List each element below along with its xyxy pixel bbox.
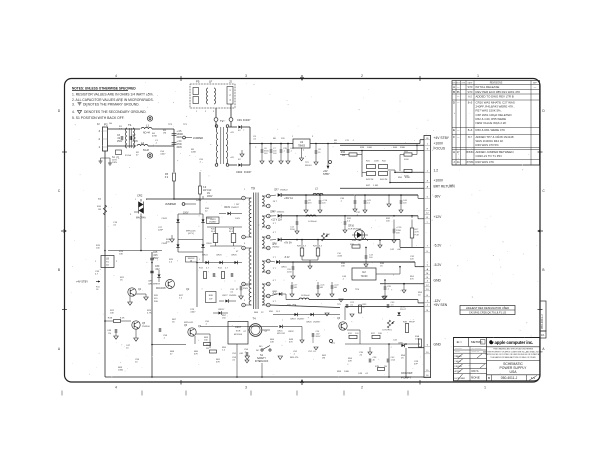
svg-text:P2: P2 — [104, 123, 108, 127]
svg-text:-5.2V: -5.2V — [284, 257, 290, 259]
svg-text:C30: C30 — [155, 266, 160, 268]
svg-text:CR2: CR2 — [137, 194, 143, 198]
svg-text:PROP: PROP — [409, 322, 416, 324]
svg-text:CR19: CR19 — [290, 319, 296, 321]
svg-text:13: 13 — [267, 272, 269, 274]
svg-text:+C15: +C15 — [396, 227, 402, 229]
svg-text:1N4937: 1N4937 — [313, 321, 321, 323]
svg-text:PONPT: PONPT — [401, 376, 413, 380]
svg-text:+100V: +100V — [434, 142, 444, 146]
svg-text:200V: 200V — [177, 137, 183, 139]
svg-text:2M: 2M — [342, 155, 345, 157]
svg-text:CR24: CR24 — [202, 255, 208, 257]
svg-text:100V: 100V — [235, 218, 241, 220]
svg-text:J: J — [427, 305, 428, 307]
svg-text:REVISIONS: REVISIONS — [490, 82, 503, 84]
svg-text:L1: L1 — [146, 124, 150, 128]
svg-text:10K: 10K — [110, 313, 114, 315]
svg-text:B+6: B+6 — [468, 129, 473, 132]
svg-text:HIGHEST REF DESIGNATOR USED: HIGHEST REF DESIGNATOR USED — [466, 306, 509, 310]
svg-text:U2: U2 — [362, 270, 366, 274]
svg-text:USA: USA — [510, 370, 518, 374]
svg-text:-12V .25A: -12V .25A — [286, 304, 297, 307]
svg-text:T2: T2 — [220, 119, 224, 123]
svg-text:-5.2V: -5.2V — [434, 263, 443, 267]
svg-text:1N: 1N — [207, 193, 210, 195]
svg-text:B-7: B-7 — [468, 136, 472, 139]
svg-text:9/79: 9/79 — [468, 91, 473, 94]
svg-text:2. ALL CAPACITOR VALUES ARE IN: 2. ALL CAPACITOR VALUES ARE IN MICROFARA… — [72, 98, 154, 102]
svg-text:A-2: A-2 — [468, 95, 472, 98]
svg-text:1R: 1R — [206, 348, 209, 350]
svg-text:+5V SEN: +5V SEN — [434, 303, 448, 307]
svg-text:B: B — [488, 376, 490, 380]
svg-text:A: A — [453, 85, 455, 89]
svg-text:8/7/84: 8/7/84 — [467, 161, 474, 164]
svg-text:NEW VALUE WAS 2.2K: NEW VALUE WAS 2.2K — [476, 121, 507, 125]
svg-text:R7B: R7B — [375, 366, 380, 368]
svg-text:4: 4 — [115, 74, 117, 78]
svg-text:1N5822: 1N5822 — [272, 246, 280, 248]
svg-text:CR20: CR20 — [306, 321, 312, 323]
svg-text:5. S1 POSITION WITH BACK OFF.: 5. S1 POSITION WITH BACK OFF. — [72, 116, 124, 120]
svg-text:R40: R40 — [341, 152, 346, 154]
svg-text:1M: 1M — [163, 133, 166, 135]
svg-text:.0047: .0047 — [190, 312, 196, 314]
svg-text:GND: GND — [434, 343, 442, 347]
svg-text:+100V: +100V — [434, 179, 444, 183]
svg-text:1N5822: 1N5822 — [277, 212, 285, 214]
svg-text:1.2: 1.2 — [434, 169, 439, 173]
svg-text:4.7K: 4.7K — [415, 232, 420, 234]
svg-text:C25: C25 — [153, 252, 158, 254]
svg-text:⊕ □: ⊕ □ — [457, 340, 462, 344]
svg-text:JUMPER: JUMPER — [193, 137, 203, 140]
svg-text:CR21: CR21 — [277, 331, 283, 333]
svg-text:SAFETY: SAFETY — [257, 357, 266, 360]
svg-text:9: 9 — [268, 227, 269, 229]
svg-text:PILOT: PILOT — [400, 309, 407, 311]
svg-text:330K: 330K — [400, 147, 406, 149]
svg-text:ECO: ECO — [456, 83, 460, 85]
svg-text:1. RESISTOR VALUES ARE IN OHMS: 1. RESISTOR VALUES ARE IN OHMS 1/4 WATT … — [72, 93, 154, 97]
svg-text:INITIAL RELEASE: INITIAL RELEASE — [476, 85, 500, 89]
svg-text:1N4936: 1N4936 — [229, 295, 237, 297]
svg-text:050-4011-J: 050-4011-J — [540, 314, 544, 329]
svg-text:+C22: +C22 — [334, 285, 340, 287]
svg-text:———: ——— — [455, 348, 463, 350]
svg-text:5: 5 — [243, 305, 244, 307]
svg-text:B: B — [542, 268, 544, 272]
svg-text:DESIGN: DESIGN — [455, 366, 463, 368]
svg-text:+30V 1A: +30V 1A — [284, 197, 293, 200]
svg-text:CR7: CR7 — [274, 190, 279, 192]
svg-text:9/79: 9/79 — [468, 86, 473, 89]
svg-text:CR26: CR26 — [231, 255, 237, 257]
svg-text:+ C4: + C4 — [177, 141, 183, 143]
svg-text:C42,R60,CR28,Q6,T9,L8,F1,U2: C42,R60,CR28,Q6,T9,L8,F1,U2 — [469, 311, 507, 315]
svg-text:STBY: STBY — [323, 172, 330, 176]
svg-text:——: —— — [455, 352, 460, 354]
svg-text:1M: 1M — [384, 366, 387, 368]
svg-text:—— —: —— — — [472, 352, 480, 354]
svg-text:CR5: CR5 — [148, 281, 153, 283]
svg-text:J2: J2 — [229, 80, 232, 84]
svg-text:1.5M: 1.5M — [373, 185, 378, 187]
svg-text:7: 7 — [268, 206, 269, 208]
svg-text:[4 PL]: [4 PL] — [188, 233, 194, 235]
svg-text:+4V STBY: +4V STBY — [434, 136, 450, 140]
svg-text:CR1: CR1 — [237, 119, 243, 122]
svg-text:MPU131: MPU131 — [277, 333, 286, 335]
svg-text:F3 1A: F3 1A — [125, 154, 131, 157]
svg-text:10K: 10K — [119, 254, 123, 256]
svg-text:DENOTES THE SECONDARY GROUND.: DENOTES THE SECONDARY GROUND. — [84, 110, 146, 114]
svg-text:200V: 200V — [207, 196, 213, 198]
svg-text:-30V: -30V — [434, 195, 442, 199]
svg-text:JUMPER: JUMPER — [165, 202, 176, 206]
svg-text:12: 12 — [267, 261, 269, 263]
svg-text:3.: 3. — [72, 102, 75, 106]
svg-text:REPRODUCED OR COPIED OR USED I: REPRODUCED OR COPIED OR USED IN WHOLE OR… — [486, 353, 542, 356]
svg-text:4.7K: 4.7K — [147, 313, 152, 315]
svg-text:50uM: 50uM — [143, 150, 149, 152]
svg-text:CR46: CR46 — [206, 243, 212, 245]
svg-text:FOCUS: FOCUS — [434, 147, 446, 151]
svg-text:B/5/84: B/5/84 — [466, 151, 474, 154]
svg-text:2: 2 — [361, 74, 363, 78]
svg-text:C12: C12 — [207, 190, 212, 192]
svg-text:1.1A: 1.1A — [391, 359, 396, 362]
svg-text:CR27: CR27 — [222, 295, 228, 297]
svg-text:R65 470: R65 470 — [290, 357, 299, 359]
svg-text:B: B — [453, 90, 455, 94]
svg-text:4700: 4700 — [177, 144, 183, 146]
svg-text:METRIC: METRIC — [471, 340, 483, 344]
svg-text:10B: 10B — [378, 333, 382, 335]
svg-text:220K: 220K — [191, 152, 197, 154]
svg-text:MCR106: MCR106 — [234, 334, 243, 336]
svg-text:470K: 470K — [152, 136, 158, 138]
svg-text:SCR: SCR — [236, 330, 241, 332]
svg-text:ADDED TO DWG REV LTR B: ADDED TO DWG REV LTR B — [476, 95, 514, 99]
svg-text:LF: LF — [209, 80, 213, 84]
svg-text:1984: 1984 — [449, 183, 455, 187]
svg-text:1N4937: 1N4937 — [297, 319, 305, 321]
svg-text:2A: 2A — [457, 161, 460, 164]
svg-text:R0 S: R0 S — [472, 369, 479, 373]
svg-text:CR6 WHITE: CR6 WHITE — [148, 284, 161, 286]
svg-text:050-4011-J: 050-4011-J — [501, 376, 518, 380]
svg-text:IN4001: IN4001 — [305, 165, 313, 167]
svg-text:E: E — [453, 128, 455, 132]
svg-text:.015: .015 — [153, 255, 158, 257]
svg-text:THIS DRAWING AND SPECIFICATION: THIS DRAWING AND SPECIFICATIONS HEREIN — [493, 347, 534, 350]
svg-text:ON-OFF: ON-OFF — [401, 371, 413, 375]
svg-text:CR20-21 TO T1 PIN: CR20-21 TO T1 PIN — [476, 154, 502, 158]
svg-text:T1: T1 — [128, 123, 132, 127]
svg-text:1: 1 — [484, 386, 486, 390]
svg-text:8.2K: 8.2K — [120, 318, 125, 320]
svg-text:C57 .01: C57 .01 — [308, 351, 316, 353]
svg-text:+5V 3A: +5V 3A — [284, 242, 292, 245]
svg-text:NOTES: UNLESS OTHERWISE SPECIF: NOTES: UNLESS OTHERWISE SPECIFIED — [72, 87, 136, 91]
svg-text:INTERLOCK: INTERLOCK — [255, 361, 269, 363]
svg-text:B+5: B+5 — [468, 101, 473, 104]
svg-text:250V: 250V — [133, 141, 139, 143]
svg-text:H: H — [453, 150, 455, 154]
svg-text:16V: 16V — [396, 233, 400, 235]
svg-text:T9: T9 — [251, 187, 255, 191]
svg-text:100K: 100K — [344, 371, 350, 373]
svg-text:L4 36uH: L4 36uH — [308, 221, 317, 223]
svg-text:10: 10 — [267, 237, 269, 239]
svg-text:74C00: 74C00 — [361, 276, 369, 278]
svg-text:200V: 200V — [316, 336, 321, 338]
svg-text:MPS-U05: MPS-U05 — [186, 231, 196, 233]
svg-text:IN4007: IN4007 — [244, 172, 252, 174]
svg-text:100K: 100K — [374, 161, 379, 163]
svg-text:+12V: +12V — [434, 215, 443, 219]
svg-text:REV PER ECO #85 R21 WAS 47K: REV PER ECO #85 R21 WAS 47K — [476, 90, 521, 94]
svg-text:CR41: CR41 — [161, 218, 167, 220]
svg-text:U1: U1 — [300, 140, 304, 144]
svg-text:4: 4 — [243, 248, 244, 250]
svg-text:+ C5: + C5 — [177, 131, 183, 133]
svg-text:1N5822: 1N5822 — [280, 190, 288, 192]
svg-text:APPRV: APPRV — [455, 370, 462, 373]
svg-text:47K: 47K — [216, 362, 220, 364]
svg-text:1: 1 — [477, 74, 479, 78]
svg-text:+24V: +24V — [196, 200, 202, 202]
svg-text:R7A: R7A — [108, 317, 113, 320]
svg-text:4: 4 — [115, 386, 117, 390]
svg-text:220P: 220P — [158, 230, 164, 232]
svg-text:CR32: CR32 — [288, 331, 294, 333]
svg-text:T4: T4 — [253, 317, 257, 321]
svg-text:R60 & R61 WERE 47K: R60 & R61 WERE 47K — [476, 128, 506, 132]
svg-text:15: 15 — [267, 296, 269, 298]
svg-text:R43 1M: R43 1M — [366, 179, 374, 181]
svg-text:NC: NC — [256, 350, 260, 352]
svg-text:NO: NO — [259, 346, 263, 348]
svg-text:10V: 10V — [273, 153, 277, 155]
svg-text:CR25: CR25 — [216, 255, 222, 257]
svg-text:-5.2V: -5.2V — [434, 244, 443, 248]
svg-text:P5: P5 — [196, 80, 200, 84]
svg-text:CR17: CR17 — [235, 327, 242, 329]
svg-text:R20 WAS 47K: R20 WAS 47K — [476, 160, 495, 164]
svg-text:.0033: .0033 — [337, 256, 343, 258]
svg-text:100K: 100K — [118, 370, 124, 372]
svg-text:47K: 47K — [194, 354, 198, 356]
svg-text:78M05: 78M05 — [298, 145, 306, 147]
svg-text:600K: 600K — [404, 159, 409, 161]
svg-text:R49 WAS 470 5%: R49 WAS 470 5% — [476, 143, 500, 147]
svg-text:CR22: CR22 — [236, 171, 243, 174]
svg-text:D-PRONER: D-PRONER — [455, 378, 466, 380]
svg-text:CR9: CR9 — [272, 244, 277, 246]
svg-text:47P: 47P — [414, 364, 418, 366]
svg-text:3: 3 — [243, 237, 244, 239]
svg-text:M: M — [426, 273, 428, 275]
svg-text:GND: GND — [434, 279, 442, 283]
svg-text:.022: .022 — [155, 269, 160, 271]
svg-text:10K: 10K — [270, 342, 274, 344]
svg-text:2200: 2200 — [396, 230, 402, 232]
svg-text:100K: 100K — [367, 147, 373, 149]
svg-text:+C21: +C21 — [320, 285, 326, 287]
svg-text:1M: 1M — [322, 358, 325, 360]
svg-text:CR16: CR16 — [348, 226, 355, 228]
svg-text:6: 6 — [268, 196, 269, 198]
svg-text:—: — — [534, 86, 537, 89]
svg-text:16V: 16V — [264, 153, 268, 155]
svg-text:230V: 230V — [112, 162, 118, 164]
svg-text:1: 1 — [243, 198, 244, 200]
svg-text:8: 8 — [268, 216, 269, 218]
svg-text:CR29: CR29 — [224, 207, 231, 209]
svg-text:10K: 10K — [341, 266, 345, 268]
svg-text:MACR4A: MACR4A — [136, 217, 146, 220]
svg-text:1M: 1M — [98, 209, 101, 211]
svg-text:4.: 4. — [72, 110, 75, 114]
svg-text:MPS-U51: MPS-U51 — [184, 322, 194, 324]
svg-text:14: 14 — [267, 284, 269, 286]
svg-text:FLM: FLM — [415, 234, 419, 236]
svg-text:1N: 1N — [108, 333, 111, 335]
svg-text:+6V: +6V — [230, 132, 234, 134]
svg-text:IN4007: IN4007 — [243, 120, 251, 122]
svg-text:16: 16 — [267, 305, 269, 307]
svg-text:1/1: 1/1 — [541, 333, 545, 337]
svg-text:820K: 820K — [405, 177, 411, 179]
svg-text:THE BASIS FOR MANUFACTURE OR S: THE BASIS FOR MANUFACTURE OR SALE OF ITE… — [490, 356, 536, 359]
svg-text:NO-44: NO-44 — [143, 133, 151, 135]
svg-text:B: B — [58, 268, 60, 272]
svg-text:11: 11 — [267, 248, 269, 250]
svg-text:90B: 90B — [154, 301, 158, 303]
svg-text:CONTROL: CONTROL — [382, 330, 393, 332]
svg-text:3: 3 — [245, 74, 247, 78]
svg-text:+6V: +6V — [230, 157, 234, 159]
svg-text:CR33: CR33 — [218, 309, 224, 311]
svg-text:CR23: CR23 — [210, 219, 216, 221]
svg-text:R44 2M: R44 2M — [380, 179, 388, 181]
svg-text:2: 2 — [361, 386, 363, 390]
svg-text:200V: 200V — [177, 147, 183, 149]
svg-text:+12 V 12A: +12 V 12A — [271, 219, 282, 222]
svg-text:250V: 250V — [117, 141, 123, 143]
svg-text:+4V STBY: +4V STBY — [76, 280, 88, 284]
svg-text:apple computer inc.: apple computer inc. — [495, 340, 534, 345]
svg-text:R3A: R3A — [415, 335, 420, 338]
svg-text:F: F — [453, 135, 455, 139]
svg-text:13000: 13000 — [177, 134, 184, 136]
svg-text:1N4937: 1N4937 — [209, 222, 217, 224]
svg-text:ARE THE PROPERTY OF APPLE COMP: ARE THE PROPERTY OF APPLE COMPUTER INC. … — [483, 350, 543, 353]
svg-text:CR8: CR8 — [270, 212, 275, 214]
svg-text:CHECK: CHECK — [455, 361, 462, 363]
svg-text:2: 2 — [243, 284, 244, 286]
svg-text:2N3906: 2N3906 — [142, 326, 150, 328]
svg-text:— ———: — ——— — [472, 348, 483, 350]
svg-text:26 T: 26 T — [273, 201, 278, 203]
svg-text:350V: 350V — [243, 288, 249, 290]
svg-text:22K: 22K — [348, 361, 352, 363]
svg-text:MJ10005: MJ10005 — [156, 288, 166, 290]
svg-text:3: 3 — [245, 386, 247, 390]
svg-text:.0047: .0047 — [160, 154, 166, 156]
svg-text:1N4937: 1N4937 — [231, 207, 239, 209]
svg-text:L8 36uH: L8 36uH — [301, 295, 310, 297]
svg-text:DENOTES THE PRIMARY GROUND.: DENOTES THE PRIMARY GROUND. — [83, 102, 140, 106]
